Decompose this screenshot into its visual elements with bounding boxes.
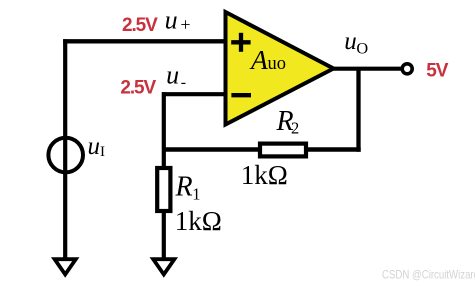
wire node to R2 left [162, 147, 262, 151]
wire output vertical branch [356, 67, 360, 152]
resistor R1 box [157, 168, 170, 211]
output terminal [402, 64, 412, 74]
svg-text:u: u [166, 60, 179, 89]
op-amp minus input symbol [231, 93, 251, 97]
wire R2 right to output branch [306, 147, 361, 151]
svg-text:u: u [344, 28, 357, 55]
ground (right, under R1) [153, 259, 174, 274]
op-amp U1 (A_uo) [226, 12, 334, 125]
wire R1 bottom lead [162, 213, 166, 258]
node label u- [166, 60, 186, 91]
svg-text:1kΩ: 1kΩ [241, 160, 288, 190]
svg-text:1kΩ: 1kΩ [175, 206, 222, 236]
svg-text:R: R [175, 172, 193, 203]
wire left vertical [63, 39, 67, 257]
svg-text:u: u [88, 133, 101, 160]
wire u- input horizontal [162, 92, 226, 96]
node label u+ [165, 5, 191, 34]
resistor R2 box [260, 144, 306, 157]
ground (left) [55, 259, 76, 274]
wire u- vertical down to node [162, 92, 166, 166]
svg-text:2.5V: 2.5V [120, 78, 156, 99]
svg-text:2: 2 [291, 118, 299, 137]
svg-text:+: + [180, 14, 190, 34]
svg-text:-: - [181, 74, 186, 91]
wire output horizontal [333, 67, 401, 71]
svg-text:u: u [165, 5, 178, 34]
source u_I circle [48, 138, 83, 173]
svg-text:uo: uo [268, 54, 287, 74]
svg-text:1: 1 [192, 184, 200, 203]
wire top (u+ input) [63, 39, 226, 43]
svg-text:2.5V: 2.5V [122, 15, 158, 36]
svg-text:I: I [100, 144, 105, 160]
svg-text:O: O [356, 38, 368, 57]
node label u_O [344, 28, 368, 58]
op-amp plus input symbol [231, 33, 250, 52]
svg-text:A: A [249, 44, 268, 75]
svg-text:5V: 5V [426, 60, 448, 81]
label u_I [88, 133, 106, 160]
label R2 [276, 106, 300, 137]
svg-text:CSDN @CircuitWizard: CSDN @CircuitWizard [382, 268, 475, 282]
label R1 [175, 172, 201, 204]
